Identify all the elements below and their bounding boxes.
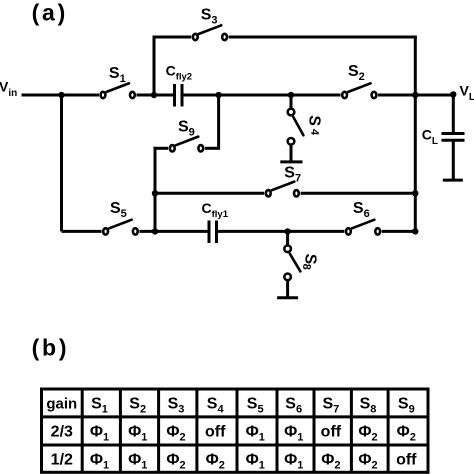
svg-text:off: off: [205, 424, 226, 441]
svg-text:off: off: [396, 451, 417, 468]
svg-text:gain: gain: [46, 396, 77, 413]
svg-text:S: S: [305, 115, 323, 127]
svg-text:1/2: 1/2: [51, 451, 73, 468]
svg-text:off: off: [321, 424, 342, 441]
svg-text:(a): (a): [32, 0, 69, 26]
svg-text:8: 8: [300, 263, 312, 270]
svg-text:2/3: 2/3: [51, 424, 73, 441]
svg-text:(b): (b): [32, 335, 70, 361]
